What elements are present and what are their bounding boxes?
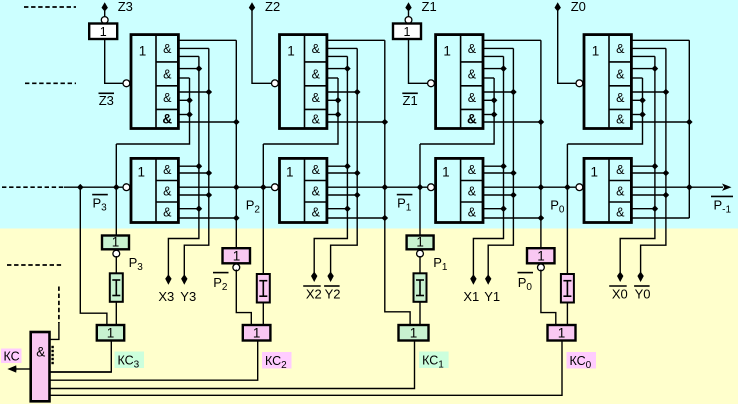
bubble carry output bit2: [272, 184, 279, 191]
wire AND1 line c bit0: [631, 55, 655, 57]
gate divider middle bit3: [155, 158, 157, 222]
svg-text:&: &: [163, 42, 172, 56]
gate divider middle bit0: [608, 158, 610, 222]
junction Vd-AND4 bit1: [538, 119, 545, 126]
wire Z2 output: [252, 10, 272, 83]
junction Vc-mAND1 bit3: [206, 170, 213, 177]
AND-OR-NOT gate block top bit0: [584, 35, 631, 129]
svg-text:1: 1: [233, 248, 241, 263]
wire vertical Va bit0: [567, 78, 642, 144]
delay element bit0: [561, 274, 574, 303]
svg-text:&: &: [163, 91, 172, 105]
svg-text:1: 1: [404, 25, 411, 39]
junction Va-AND3 bit2: [335, 97, 342, 104]
label register P0: [537, 248, 545, 263]
delay element bit2: [257, 274, 270, 303]
wire Y0 input vertical: [641, 48, 666, 273]
svg-text:&: &: [468, 206, 477, 220]
gate cell dividers top bit3: [156, 62, 178, 110]
wire KC3 bus: [50, 371, 112, 373]
label AND cells middle bit2: [312, 163, 321, 220]
junction Vb-AND2 bit2: [344, 65, 351, 72]
gate cell dividers top bit1: [461, 62, 483, 110]
gate cell dividers middle bit3: [156, 181, 178, 203]
wire mAND1 line b bit0: [631, 172, 666, 174]
wire carry bus dashed left end: [2, 186, 64, 188]
delay element bit3: [110, 273, 123, 302]
svg-text:&: &: [163, 163, 172, 177]
bubble carry output bit3: [123, 184, 130, 191]
label Y3: [180, 289, 196, 304]
register box P2: [223, 248, 251, 263]
wire carry chain Vd bit1: [540, 40, 542, 248]
svg-text:&: &: [312, 113, 321, 127]
wire register to KC gate bit0: [541, 270, 556, 326]
wire dashed KC gate top input: [58, 287, 60, 324]
svg-text:1: 1: [410, 326, 418, 341]
svg-text:Y3: Y3: [180, 289, 196, 304]
junction Va-AND3 bit1: [491, 97, 498, 104]
svg-text:1: 1: [139, 43, 147, 58]
junction Vb-AND2 bit1: [500, 65, 507, 72]
svg-text:X3: X3: [158, 289, 174, 304]
svg-text:&: &: [163, 67, 172, 81]
label P1 out: [433, 255, 448, 273]
svg-text:&: &: [467, 112, 477, 127]
gate divider top bit2: [304, 35, 306, 129]
wire carry bus P line: [64, 186, 723, 188]
junction bus-BV bit1: [417, 184, 424, 191]
wire KC1 output: [50, 341, 415, 389]
svg-text:&: &: [468, 42, 477, 56]
label Z3: [118, 0, 133, 14]
wire register to KC gate bit2: [236, 270, 251, 326]
wire mAND3 line a bit0: [631, 208, 655, 210]
label Z1: [422, 0, 437, 14]
svg-text:&: &: [616, 206, 625, 220]
wire AND4 line b bit2: [327, 121, 385, 123]
svg-text:X0: X0: [612, 287, 628, 302]
label Pbar1 bus: [397, 195, 413, 214]
wire AND2 line b bit3: [178, 77, 189, 79]
arrow Y0 input: [637, 272, 643, 283]
svg-text:&: &: [616, 184, 625, 198]
wire AND1 line c bit3: [178, 55, 199, 57]
label Zbar3: [99, 93, 115, 108]
bubble register output P1: [417, 250, 424, 257]
wire node P2 vertical: [262, 144, 264, 274]
junction Vb-mAND1 bit1: [500, 163, 507, 170]
wire AND1 line a bit3: [178, 39, 236, 41]
label OR top bit0: [592, 43, 600, 58]
wire AND3 line a bit1: [483, 91, 513, 93]
label Pbar2 out: [213, 273, 229, 293]
label OR top bit3: [139, 43, 147, 58]
label delay bit1: [416, 280, 424, 296]
wire X3 input vertical: [168, 56, 199, 276]
arrow Y3 input: [181, 274, 187, 285]
wire X2 input vertical: [314, 56, 347, 273]
wire node P0 vertical: [566, 144, 568, 274]
svg-text:&: &: [312, 42, 321, 56]
label Pbar3 bus: [92, 195, 108, 214]
junction Vd-AND4 bit0: [686, 119, 693, 126]
gate divider top bit3: [155, 35, 157, 129]
wire vertical Va bit2: [263, 78, 338, 144]
svg-text:1: 1: [442, 165, 450, 180]
svg-text:1: 1: [286, 165, 294, 180]
wire bus tap to KC gate bit3: [80, 187, 107, 325]
junction Vd-bus bit2: [382, 184, 389, 191]
junction Vd-mAND3 bit1: [538, 215, 545, 222]
wire vertical Va bit3: [116, 78, 189, 144]
label P0 bus: [550, 198, 565, 216]
junction Vb-mAND3 bit2: [344, 205, 351, 212]
KC gate box bit2: [243, 325, 271, 341]
register box P1: [407, 236, 434, 250]
wire mAND3 line a bit3: [178, 208, 199, 210]
junction Vb-AND2 bit3: [196, 65, 203, 72]
svg-text:X1: X1: [463, 289, 479, 304]
svg-text:1: 1: [100, 25, 107, 39]
label Y1: [484, 289, 500, 304]
wire register to delay bit3: [115, 256, 117, 273]
dashed continuation line 1: [24, 6, 76, 8]
wire mAND3 line b bit3: [178, 217, 236, 219]
svg-text:&: &: [312, 163, 321, 177]
svg-text:&: &: [36, 345, 45, 360]
label KC gate bit2: [253, 326, 261, 341]
svg-text:&: &: [163, 184, 172, 198]
label Xbar2: [303, 286, 322, 302]
wire inverter input Z1: [409, 39, 428, 83]
svg-text:&: &: [312, 67, 321, 81]
gate cell dividers middle bit2: [305, 181, 327, 203]
label register P3: [112, 235, 120, 250]
junction Vc-mAND2 bit1: [510, 192, 517, 199]
svg-text:&: &: [616, 91, 625, 105]
gate cell dividers top bit2: [305, 62, 327, 110]
junction Vc-AND3 bit2: [354, 89, 361, 96]
label OR middle bit0: [591, 165, 599, 180]
junction bus-BV bit3: [113, 184, 120, 191]
bubble register output P0: [538, 264, 545, 271]
wire delay to KC gate bit2: [262, 303, 264, 326]
wire KC0 output: [50, 341, 563, 396]
svg-text:1: 1: [253, 326, 261, 341]
svg-text:&: &: [616, 113, 625, 127]
wire AND1 line b bit2: [327, 47, 357, 49]
wire mAND1 line b bit3: [178, 172, 208, 174]
gate divider top bit1: [460, 35, 462, 129]
svg-text:&: &: [468, 163, 477, 177]
label KC2: [262, 352, 292, 371]
bubble carry output bit0: [576, 184, 583, 191]
svg-text:&: &: [616, 42, 625, 56]
junction Va-AND4 bit0: [639, 111, 646, 118]
label KC gate bit3: [107, 326, 115, 341]
label Ybar2: [324, 286, 340, 302]
wire mAND3 line b bit0: [631, 217, 689, 219]
junction Vd-bus bit3: [233, 184, 240, 191]
arrow KC output: [8, 365, 17, 372]
svg-text:Y0: Y0: [635, 287, 651, 302]
junction Vb-AND2 bit0: [652, 65, 659, 72]
wire carry chain Vd bit3: [235, 40, 237, 248]
arrow Z0: [555, 2, 561, 11]
svg-text:Z3: Z3: [99, 93, 114, 108]
wire KC3 output: [50, 341, 112, 373]
label Zbar1: [402, 93, 418, 108]
wire AND1 line a bit0: [631, 39, 689, 41]
svg-text:&: &: [468, 67, 477, 81]
svg-text:&: &: [312, 184, 321, 198]
svg-text:&: &: [616, 67, 625, 81]
wire delay to KC gate bit0: [566, 303, 568, 326]
junction Vc-mAND1 bit2: [354, 170, 361, 177]
junction Vb-mAND1 bit3: [196, 163, 203, 170]
wire mAND1 line b bit2: [327, 172, 357, 174]
wire mAND2 line b bit0: [631, 194, 666, 196]
AND-OR-NOT gate block top bit2: [280, 35, 327, 129]
label AND cells top bit1: [467, 42, 477, 127]
label KC gate bit0: [558, 326, 566, 341]
AND-OR-NOT gate block middle bit1: [436, 158, 483, 222]
wire AND4 line a bit3: [178, 114, 189, 116]
svg-text:Z0: Z0: [571, 0, 586, 14]
wire delay to KC gate bit1: [419, 302, 421, 325]
label Z0: [571, 0, 586, 14]
label KC3: [115, 352, 145, 371]
wire delay to KC gate bit3: [115, 302, 117, 325]
wire AND4 line b bit1: [483, 121, 541, 123]
wire AND3 line b bit2: [327, 99, 338, 101]
wire mAND1 line a bit2: [327, 165, 348, 167]
junction bus-BV bit2: [260, 184, 267, 191]
arrow Y1 input: [485, 274, 491, 285]
wire X0 input vertical: [620, 56, 655, 273]
wire AND3 line b bit1: [483, 99, 494, 101]
label OR middle bit1: [442, 165, 450, 180]
bubble gate output top bit3: [123, 80, 130, 87]
gate cell dividers middle bit0: [609, 181, 631, 203]
KC gate box bit1: [399, 325, 429, 341]
wire AND1 line a bit1: [483, 39, 541, 41]
svg-text:&: &: [616, 163, 625, 177]
label AND cells middle bit1: [468, 163, 477, 220]
junction bus tap bit3: [77, 184, 84, 191]
label Ybar0: [634, 286, 650, 302]
junction bus-BV bit0: [564, 184, 571, 191]
background yellow region: [0, 229, 738, 405]
gate divider top bit0: [608, 35, 610, 129]
label OR middle bit3: [138, 165, 146, 180]
junction Vb-mAND3 bit3: [196, 205, 203, 212]
gate cell dividers top bit0: [609, 62, 631, 110]
bubble gate output top bit2: [272, 80, 279, 87]
svg-text:Y2: Y2: [325, 287, 341, 302]
label Xbar0: [609, 286, 628, 302]
svg-text:1: 1: [537, 248, 545, 263]
junction Vc-mAND2 bit2: [354, 192, 361, 199]
junction Va-AND3 bit3: [186, 97, 193, 104]
wire AND2 line b bit2: [327, 77, 338, 79]
wire AND3 line a bit3: [178, 91, 208, 93]
junction Va-AND3 bit0: [639, 97, 646, 104]
svg-text:&: &: [312, 206, 321, 220]
svg-text:1: 1: [287, 43, 295, 58]
label KC decoder AND: [36, 345, 45, 360]
label register P1: [416, 235, 424, 250]
junction Vd-bus bit0: [686, 184, 693, 191]
label KC gate bit1: [410, 326, 418, 341]
junction Vb-mAND3 bit1: [500, 205, 507, 212]
label X3: [158, 289, 174, 304]
wire mAND1 line a bit3: [178, 165, 199, 167]
junction Vb-mAND1 bit2: [344, 163, 351, 170]
inverter box Z1: [393, 24, 421, 40]
wire register to delay bit1: [419, 256, 421, 273]
svg-text:1: 1: [443, 43, 451, 58]
junction Vd-bus bit1: [538, 184, 545, 191]
label delay bit3: [112, 280, 120, 296]
AND-OR-NOT gate block middle bit2: [280, 158, 327, 222]
wire carry chain Vd bit2: [385, 40, 410, 325]
wire node P1 vertical: [419, 144, 421, 236]
junction Vb-mAND3 bit0: [652, 205, 659, 212]
svg-text:&: &: [162, 112, 172, 127]
label AND cells middle bit0: [616, 163, 625, 220]
register box P3: [102, 236, 129, 250]
svg-text:1: 1: [138, 165, 146, 180]
label Pbar0 out: [518, 273, 534, 293]
wire KC2 output: [50, 341, 258, 381]
wire AND1 line b bit1: [483, 47, 513, 49]
dashed continuation line 2: [25, 82, 76, 84]
wire AND3 line a bit2: [327, 91, 357, 93]
ellipsis KC inputs: [51, 346, 53, 364]
junction Vb-mAND1 bit0: [652, 163, 659, 170]
label OR top bit1: [443, 43, 451, 58]
svg-text:&: &: [312, 91, 321, 105]
KC gate box bit0: [548, 325, 576, 341]
label delay bit0: [563, 281, 571, 297]
svg-text:Z1: Z1: [422, 0, 437, 14]
junction Vc-AND3 bit1: [510, 89, 517, 96]
label AND cells top bit2: [312, 42, 321, 127]
wire mAND1 line a bit1: [483, 165, 504, 167]
wire AND4 line b bit0: [631, 121, 689, 123]
wire AND3 line b bit3: [178, 99, 189, 101]
wire Z1 output: [408, 10, 410, 17]
svg-text:&: &: [468, 91, 477, 105]
wire mAND3 line a bit2: [327, 208, 348, 210]
wire Y2 input vertical: [331, 48, 358, 273]
wire X1 input vertical: [473, 56, 503, 276]
svg-text:&: &: [468, 184, 477, 198]
svg-text:1: 1: [107, 326, 115, 341]
label X1: [463, 289, 479, 304]
svg-text:X2: X2: [306, 287, 322, 302]
wire AND1 line b bit3: [178, 47, 208, 49]
bubble register output P3: [113, 250, 120, 257]
label inverter Z1: [404, 25, 411, 39]
wire AND1 line c bit2: [327, 55, 348, 57]
junction Vc-mAND2 bit3: [206, 192, 213, 199]
gate divider middle bit2: [304, 158, 306, 222]
junction Vd-AND4 bit2: [382, 119, 389, 126]
label Z2: [265, 0, 280, 14]
svg-text:1: 1: [591, 165, 599, 180]
KC decoder gate: [31, 332, 50, 401]
svg-text:&: &: [163, 206, 172, 220]
wire AND4 line a bit2: [327, 114, 338, 116]
wire Z0 output: [558, 10, 576, 83]
wire AND2 line a bit3: [178, 68, 199, 70]
delay element bit1: [414, 273, 427, 302]
bubble register output P2: [233, 264, 240, 271]
label OR middle bit2: [286, 165, 294, 180]
wire KC gate top input: [50, 323, 59, 339]
arrow Z3: [102, 2, 108, 11]
label Pbar-1: [711, 196, 733, 215]
wire vertical Va bit1: [420, 78, 494, 144]
wire AND2 line a bit0: [631, 68, 655, 70]
wire AND2 line a bit1: [483, 68, 504, 70]
gate cell dividers middle bit1: [461, 181, 483, 203]
AND-OR-NOT gate block middle bit0: [584, 158, 631, 222]
wire carry chain Vd bit0: [688, 40, 690, 218]
label KC input: [1, 349, 22, 364]
label AND cells top bit0: [616, 42, 625, 127]
junction Vc-mAND1 bit0: [663, 170, 670, 177]
arrow X1 input: [470, 274, 476, 285]
label P3 out: [129, 255, 144, 273]
dashed continuation line 3: [7, 264, 63, 266]
wire mAND2 line b bit1: [483, 194, 513, 196]
wire Y1 input vertical: [488, 48, 513, 276]
bubble carry output bit1: [428, 184, 435, 191]
wire node P3 vertical: [115, 144, 117, 236]
wire AND2 line b bit1: [483, 77, 494, 79]
label P2 bus: [246, 198, 261, 216]
svg-text:КС: КС: [4, 350, 20, 364]
label delay bit2: [259, 281, 267, 297]
svg-text:Z3: Z3: [118, 0, 133, 14]
arrow Z1: [405, 2, 411, 11]
inverter box Z3: [89, 24, 117, 40]
wire AND1 line a bit2: [327, 39, 385, 41]
arrow X0 input: [617, 272, 623, 283]
svg-text:1: 1: [416, 235, 424, 250]
AND-OR-NOT gate block top bit1: [436, 35, 483, 129]
svg-text:Z1: Z1: [403, 93, 418, 108]
bubble inverter output Z1: [405, 17, 412, 24]
wire AND4 line a bit1: [483, 114, 494, 116]
junction Va-AND4 bit1: [491, 111, 498, 118]
wire Z3 output: [104, 10, 106, 17]
bubble gate output top bit1: [428, 80, 435, 87]
register box P0: [527, 248, 555, 263]
wire AND3 line b bit0: [631, 99, 642, 101]
wire KC output arrow: [15, 368, 31, 370]
arrow X2 input: [311, 272, 317, 283]
wire AND1 line c bit1: [483, 55, 504, 57]
wire mAND2 line b bit3: [178, 194, 208, 196]
wire AND4 line a bit0: [631, 114, 642, 116]
background cyan region: [0, 0, 738, 229]
arrow X3 input: [165, 274, 171, 285]
